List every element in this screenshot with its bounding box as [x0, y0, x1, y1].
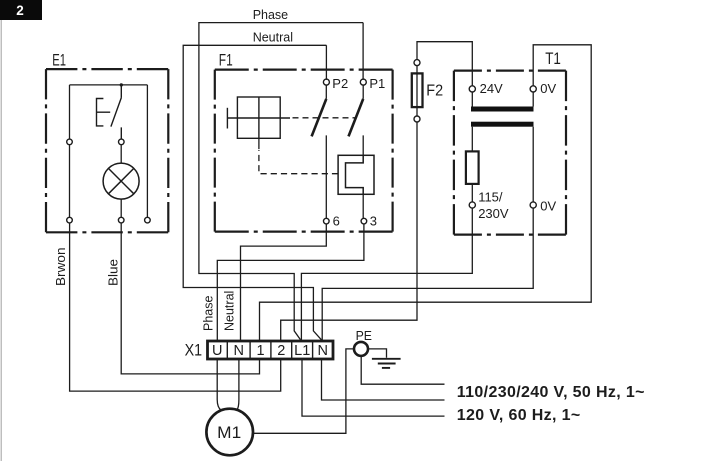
wire 24V to winding	[471, 92, 473, 107]
transformer T1 (dash-dot box)	[454, 71, 566, 235]
svg-text:E1: E1	[52, 51, 66, 69]
wire Neutral: top bus down to X1:N	[183, 45, 326, 340]
svg-text:N: N	[233, 343, 243, 359]
lamp E1	[103, 163, 139, 199]
terminal P2	[323, 79, 329, 85]
overload relay element F1	[338, 155, 374, 194]
svg-text:F2: F2	[426, 83, 443, 100]
wire F2 to X1:2	[281, 122, 417, 341]
wire F1:6 to X1:N	[241, 224, 327, 341]
terminal 0V (bottom)	[530, 202, 536, 208]
terminal 115/230V	[469, 202, 475, 208]
wire F1:3 to X1:U	[217, 224, 364, 341]
contactor F1 (dash-dot box)	[215, 70, 393, 232]
terminal (E1 left upper)	[67, 139, 73, 145]
svg-text:0V: 0V	[540, 81, 556, 96]
wire X1:N(right) to 0V bottom	[322, 208, 533, 341]
svg-text:115/: 115/	[478, 190, 503, 205]
wire primary right	[532, 127, 534, 202]
terminal (E1 right lower)	[145, 217, 151, 223]
terminal (E1 left lower)	[67, 217, 73, 223]
link coil to overload (dashed)	[258, 138, 260, 149]
contact P2 (NO)	[325, 85, 327, 218]
svg-text:PE: PE	[356, 329, 372, 343]
svg-text:Neutral: Neutral	[253, 30, 293, 44]
wire E1 left branch	[69, 85, 71, 139]
terminal 0V (top)	[530, 86, 536, 92]
wire PE to ground	[368, 349, 387, 358]
svg-text:X1: X1	[185, 342, 203, 360]
switch actuator bracket	[97, 99, 111, 126]
svg-text:Phase: Phase	[202, 296, 216, 331]
wire motor frame to PE	[253, 349, 354, 433]
wire E1 top bus	[70, 84, 148, 86]
wire X1:N to supply (110/230/240V)	[322, 359, 445, 400]
transformer secondary winding bar	[471, 107, 534, 112]
terminal block X1	[208, 341, 334, 359]
page edge line	[0, 20, 2, 461]
wire E1 left branch lower	[69, 145, 71, 218]
switch contact (E1)	[111, 85, 121, 139]
svg-text:L1: L1	[294, 343, 310, 359]
terminal P1	[360, 79, 366, 85]
fuse F2	[412, 42, 473, 122]
wire switch to lamp	[120, 145, 122, 163]
wire Brwon (E1 to X1:2)	[70, 223, 281, 391]
wire X1:L1 to 115/230V	[301, 208, 472, 341]
svg-text:2: 2	[277, 343, 285, 359]
coil F1	[227, 97, 290, 138]
svg-text:M1: M1	[217, 423, 241, 442]
ground symbol	[372, 359, 401, 368]
svg-text:F1: F1	[219, 52, 233, 70]
wire X1:N to motor	[237, 359, 239, 410]
svg-text:Phase: Phase	[253, 8, 288, 22]
motor M1	[206, 409, 253, 456]
svg-text:Brwon: Brwon	[54, 247, 68, 286]
terminal 3	[361, 218, 367, 224]
svg-text:U: U	[212, 343, 222, 359]
wire PE to supply (110/230/240V)	[361, 356, 444, 384]
transformer primary winding bar	[471, 122, 534, 127]
PE terminal	[354, 342, 368, 356]
terminal 24V	[469, 86, 475, 92]
wire primary left	[471, 127, 473, 152]
enclosure E1 (dash-dot box)	[46, 69, 168, 232]
svg-text:230V: 230V	[478, 206, 509, 221]
svg-text:N: N	[317, 343, 327, 359]
svg-text:T1: T1	[545, 50, 561, 68]
terminal (E1 switch lower)	[119, 139, 125, 145]
svg-text:2: 2	[16, 3, 24, 18]
page number badge	[0, 0, 42, 20]
svg-text:120 V, 60 Hz, 1~: 120 V, 60 Hz, 1~	[457, 407, 581, 424]
contact P1 (NO)	[362, 85, 364, 155]
wire overload to terminal 3	[362, 194, 364, 218]
node junction E1	[120, 83, 123, 86]
svg-text:0V: 0V	[540, 199, 556, 214]
wire lamp to terminal	[120, 199, 122, 217]
terminal 6	[324, 218, 330, 224]
svg-text:1: 1	[256, 343, 264, 359]
wire 0V top to winding	[532, 92, 534, 107]
wire E1 right branch	[146, 85, 148, 217]
primary tap element	[466, 151, 479, 184]
svg-text:110/230/240 V, 50 Hz, 1~: 110/230/240 V, 50 Hz, 1~	[457, 384, 645, 401]
wire 0V top to X1:1	[260, 45, 592, 341]
svg-text:Blue: Blue	[107, 259, 121, 286]
svg-text:3: 3	[370, 214, 377, 229]
terminal (E1 lamp bottom)	[118, 217, 124, 223]
wire Phase: top bus down to X1:L1	[199, 23, 363, 340]
wire X1:L1 to supply (120V)	[302, 359, 445, 416]
svg-text:24V: 24V	[480, 81, 503, 96]
svg-text:6: 6	[333, 214, 340, 229]
svg-text:P2: P2	[332, 76, 348, 91]
wire X1:U to motor	[217, 359, 221, 410]
svg-text:P1: P1	[369, 76, 385, 91]
svg-text:Neutral: Neutral	[223, 291, 237, 331]
wire Blue (E1 to X1:1)	[121, 223, 259, 374]
mechanical link (coil to contacts, dashed)	[293, 117, 356, 119]
wire tap to 115/230V	[471, 184, 473, 202]
